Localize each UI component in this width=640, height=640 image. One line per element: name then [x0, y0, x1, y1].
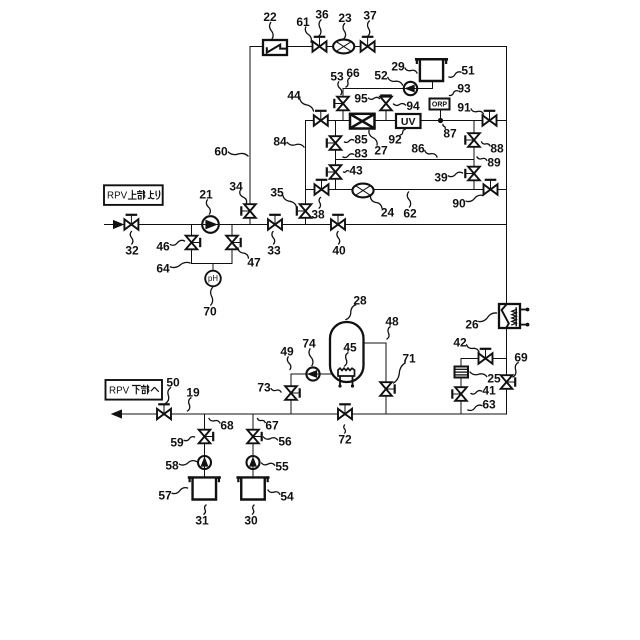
- label 35: [270, 185, 296, 207]
- label 95: [354, 91, 379, 105]
- wire ORP drop: [440, 109, 442, 121]
- label 64: [156, 261, 190, 275]
- label 83: [343, 146, 368, 160]
- svg-text:52: 52: [374, 68, 388, 82]
- svg-text:27: 27: [374, 143, 388, 157]
- svg-text:pH: pH: [208, 274, 218, 283]
- svg-text:45: 45: [343, 340, 357, 354]
- svg-text:68: 68: [220, 418, 234, 432]
- label 19: [186, 385, 200, 411]
- svg-text:34: 34: [229, 179, 243, 193]
- label 24: [371, 197, 395, 219]
- wire box25 bottom to line19: [460, 377, 462, 414]
- label 59: [170, 435, 194, 449]
- valve 32: [124, 215, 138, 230]
- label 94: [394, 99, 420, 113]
- svg-text:51: 51: [461, 63, 475, 77]
- label 32: [125, 232, 139, 258]
- svg-text:31: 31: [195, 513, 209, 527]
- label 52: [374, 68, 402, 85]
- svg-text:94: 94: [406, 99, 420, 113]
- svg-text:48: 48: [385, 314, 399, 328]
- wire pump74 line: [291, 373, 333, 375]
- valve 47: [226, 236, 241, 250]
- wire tank28 right line 48: [362, 342, 386, 344]
- label 74: [302, 336, 316, 365]
- label 56: [264, 434, 292, 448]
- tank 51 bucket: [416, 59, 447, 81]
- arrow out to RPV bottom: [112, 410, 122, 418]
- valve 53: [334, 97, 349, 111]
- ball valve 24: [352, 184, 373, 198]
- label 44: [287, 88, 313, 111]
- UV unit 92 box: [396, 114, 421, 128]
- svg-text:35: 35: [270, 185, 284, 199]
- svg-text:RPV: RPV: [109, 385, 130, 396]
- label 93: [450, 81, 471, 95]
- valve 88: [465, 133, 480, 147]
- svg-text:74: 74: [302, 336, 316, 350]
- svg-text:41: 41: [482, 383, 496, 397]
- label 27: [369, 131, 388, 158]
- svg-text:26: 26: [465, 317, 479, 331]
- wire L2 UV line: [306, 120, 507, 122]
- wire right main vertical x=506.5: [506, 47, 508, 305]
- label 73: [257, 380, 281, 394]
- wire upper main line: [105, 224, 507, 226]
- svg-text:49: 49: [280, 344, 294, 358]
- valve 56: [247, 430, 262, 444]
- wire loop 46/47 bottom: [192, 263, 233, 265]
- svg-text:21: 21: [199, 187, 213, 201]
- pump 52: [404, 82, 417, 95]
- wire vertical x=335.5 (85/43): [335, 121, 337, 190]
- valve 40: [331, 215, 345, 230]
- label 91: [457, 100, 483, 114]
- valve 90: [484, 180, 498, 195]
- svg-text:63: 63: [482, 397, 496, 411]
- svg-text:32: 32: [125, 243, 139, 257]
- svg-text:84: 84: [273, 134, 287, 148]
- label 72: [338, 425, 352, 446]
- svg-text:23: 23: [338, 11, 352, 25]
- tank 28 vessel: [330, 322, 364, 382]
- svg-text:29: 29: [391, 59, 405, 73]
- valve 37: [361, 37, 375, 52]
- heater 45: [338, 368, 355, 387]
- label 47: [238, 248, 261, 269]
- label 33: [267, 232, 281, 258]
- label 51: [449, 63, 475, 77]
- label 67: [258, 418, 279, 432]
- svg-text:24: 24: [381, 205, 395, 219]
- valve 91: [483, 111, 497, 126]
- wire top line (22-36-23-37): [250, 46, 507, 48]
- valve 85: [327, 136, 342, 150]
- label 50: [166, 375, 180, 403]
- svg-text:59: 59: [170, 435, 184, 449]
- svg-text:39: 39: [434, 170, 448, 184]
- label 45: [343, 340, 357, 366]
- svg-text:90: 90: [452, 196, 466, 210]
- svg-text:56: 56: [278, 434, 292, 448]
- svg-text:36: 36: [315, 7, 329, 21]
- label 71: [394, 351, 416, 383]
- tank 54 bucket: [238, 478, 269, 500]
- svg-text:ORP: ORP: [432, 102, 448, 109]
- svg-text:95: 95: [354, 91, 368, 105]
- svg-text:64: 64: [156, 261, 170, 275]
- ORP meter 93 box: [430, 99, 450, 110]
- label 88: [482, 141, 504, 155]
- svg-text:83: 83: [354, 146, 368, 160]
- svg-text:91: 91: [457, 100, 471, 114]
- label 62: [403, 192, 417, 220]
- svg-text:85: 85: [354, 132, 368, 146]
- label 70: [203, 288, 217, 319]
- svg-text:60: 60: [214, 144, 228, 158]
- svg-text:33: 33: [267, 243, 281, 257]
- label 38: [311, 198, 325, 222]
- wire right vertical below HX: [506, 328, 508, 414]
- wire L1 pump52 line: [343, 88, 433, 90]
- valve 94: [380, 97, 392, 111]
- label 84: [273, 134, 304, 148]
- valve 59: [199, 430, 214, 444]
- label 40: [332, 232, 346, 258]
- label 69: [513, 350, 528, 377]
- RPV upper source box: [104, 185, 163, 205]
- valve 72: [338, 404, 352, 419]
- label 34: [229, 179, 246, 203]
- label 43: [344, 163, 363, 177]
- svg-text:47: 47: [247, 255, 261, 269]
- valve 43: [327, 165, 342, 179]
- svg-text:46: 46: [156, 239, 170, 253]
- wire box25 top stub: [460, 359, 462, 367]
- valve 41: [452, 387, 467, 401]
- valve 46: [186, 236, 201, 250]
- svg-text:57: 57: [158, 488, 172, 502]
- label 41: [471, 383, 496, 397]
- label 89: [477, 155, 501, 169]
- label 58: [165, 458, 196, 472]
- label 23: [338, 11, 352, 39]
- svg-text:62: 62: [403, 206, 417, 220]
- wire L5 line 62: [306, 189, 507, 191]
- label 53: [330, 69, 344, 94]
- svg-text:43: 43: [349, 163, 363, 177]
- label 25: [470, 371, 501, 385]
- svg-text:22: 22: [263, 10, 277, 24]
- label 21: [199, 187, 213, 214]
- wire vertical x=474 (88/39): [473, 121, 475, 190]
- svg-text:50: 50: [166, 375, 180, 389]
- valve 50: [157, 404, 171, 419]
- valve 39: [465, 167, 480, 181]
- wire pH drop: [212, 264, 214, 271]
- wire valve94 vertical with cap: [385, 96, 387, 121]
- wire left drop x=250 (line 60): [249, 47, 251, 225]
- pump 21: [202, 216, 219, 233]
- label 42: [453, 335, 479, 352]
- svg-text:61: 61: [296, 15, 310, 29]
- label 31: [195, 505, 209, 527]
- label 26: [465, 313, 496, 331]
- svg-text:44: 44: [287, 88, 301, 102]
- wire tank30 branch: [252, 414, 254, 478]
- wire valve42 branch: [461, 358, 507, 360]
- wire tank51 drop: [432, 80, 434, 89]
- svg-text:73: 73: [257, 380, 271, 394]
- wire valve53 vertical: [342, 89, 344, 121]
- valve 38: [315, 180, 329, 195]
- svg-text:72: 72: [338, 432, 352, 446]
- wire bottom line 19: [121, 413, 507, 415]
- svg-text:88: 88: [490, 141, 504, 155]
- svg-text:70: 70: [203, 304, 217, 318]
- RPV lower destination box: [106, 380, 163, 400]
- label 92: [388, 130, 405, 147]
- svg-text:19: 19: [186, 385, 200, 399]
- label 37: [363, 8, 377, 36]
- pump 74: [306, 367, 319, 380]
- svg-text:58: 58: [165, 458, 179, 472]
- label 68: [209, 418, 234, 432]
- label 55: [262, 459, 289, 473]
- label 85: [345, 132, 368, 146]
- tank 57 bucket: [189, 478, 220, 500]
- valve 35: [297, 204, 312, 218]
- wire valve71 vertical: [385, 343, 387, 414]
- wire left mid vertical x=305.5: [305, 121, 307, 225]
- label 29: [391, 59, 417, 73]
- svg-text:42: 42: [453, 335, 467, 349]
- svg-text:86: 86: [411, 141, 425, 155]
- valve 44: [314, 111, 328, 126]
- pump 55: [247, 456, 260, 469]
- wire valve73 vertical line 49: [290, 374, 292, 414]
- arrow into valve 32: [114, 221, 124, 229]
- valve 71: [380, 382, 395, 396]
- wire loop 46/47 left vertical: [191, 225, 193, 264]
- label 61: [296, 15, 311, 42]
- valve 69: [501, 375, 516, 389]
- heat exchanger 26: [499, 304, 529, 328]
- svg-text:UV: UV: [401, 116, 416, 128]
- valve 73: [285, 386, 300, 400]
- filter 27 box: [350, 114, 375, 129]
- label 60: [214, 144, 248, 158]
- label 28: [346, 293, 367, 319]
- box 22 (regulator): [263, 40, 287, 55]
- label 90: [452, 195, 483, 210]
- strainer 25 box: [455, 367, 469, 378]
- svg-text:66: 66: [346, 66, 360, 80]
- svg-text:RPV: RPV: [107, 191, 128, 202]
- svg-text:40: 40: [332, 243, 346, 257]
- svg-text:38: 38: [311, 207, 325, 221]
- valve 33: [268, 215, 282, 230]
- svg-text:54: 54: [280, 489, 294, 503]
- pump 58: [198, 456, 211, 469]
- label 30: [244, 505, 258, 527]
- ball valve 23: [333, 40, 354, 54]
- label 48: [385, 314, 399, 339]
- wire loop 46/47 right vertical: [231, 225, 233, 264]
- svg-text:89: 89: [487, 155, 501, 169]
- pH meter 70: [205, 271, 221, 287]
- label 54: [268, 489, 294, 503]
- svg-text:53: 53: [330, 69, 344, 83]
- valve 42: [479, 349, 493, 364]
- label 87: [443, 125, 457, 141]
- label 46: [156, 239, 184, 253]
- label 22: [263, 10, 277, 39]
- node 87: [438, 118, 443, 123]
- label 36: [315, 7, 329, 36]
- valve 34: [241, 204, 256, 218]
- svg-text:55: 55: [275, 459, 289, 473]
- wire tank31 branch: [204, 414, 206, 478]
- label 57: [158, 488, 187, 503]
- label 49: [280, 344, 294, 369]
- svg-text:30: 30: [244, 513, 258, 527]
- svg-text:67: 67: [265, 418, 279, 432]
- svg-text:93: 93: [457, 81, 471, 95]
- label 86: [411, 141, 437, 157]
- label 66: [346, 66, 360, 87]
- svg-text:37: 37: [363, 8, 377, 22]
- wire L3 line 83/89: [336, 159, 475, 161]
- label 63: [468, 397, 496, 411]
- valve 36: [313, 37, 327, 52]
- label 39: [434, 170, 462, 184]
- svg-text:69: 69: [514, 350, 528, 364]
